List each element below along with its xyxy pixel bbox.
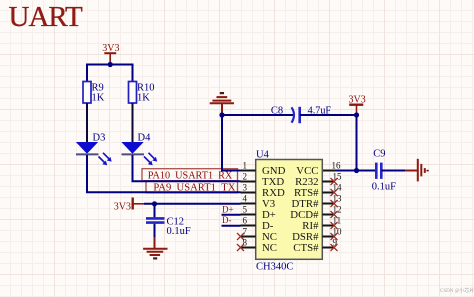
pin 13 DTR# — [292, 193, 343, 210]
svg-text:4: 4 — [243, 193, 248, 203]
wire D3 to pin3 (PA9) — [87, 155, 241, 192]
chip U4 CH340C body — [256, 150, 323, 273]
junction ground/pin1 — [219, 112, 224, 117]
svg-text:NC: NC — [262, 242, 277, 254]
power port 3V3 (right) — [349, 94, 366, 115]
wire D4 to pin2 (PA10) — [133, 155, 241, 181]
wire C9 to ground — [381, 170, 406, 172]
wire pin16 to C9 — [322, 170, 375, 172]
svg-text:2: 2 — [243, 171, 248, 181]
no-connect X pin 15 — [331, 178, 338, 185]
wire D+ to pin5 — [222, 214, 241, 216]
wire 3V3 to pin4 (V3) — [144, 203, 241, 205]
power port 3V3 (near C12) — [114, 198, 144, 213]
junction 3V3/C12 — [152, 201, 157, 206]
svg-text:CH340C: CH340C — [256, 261, 293, 272]
svg-text:CTS#: CTS# — [293, 242, 319, 254]
svg-text:14: 14 — [333, 182, 343, 192]
wire C12 to ground — [154, 224, 156, 238]
pin 6 D- — [241, 215, 274, 232]
net label D+ — [222, 204, 234, 214]
svg-text:CSDN @小芯片师: CSDN @小芯片师 — [440, 287, 474, 294]
net label D- — [222, 215, 232, 225]
svg-text:1K: 1K — [92, 93, 105, 104]
svg-text:3: 3 — [243, 182, 248, 192]
no-connect X pin 13 — [331, 200, 338, 207]
power port 3V3 (top left) — [102, 43, 119, 65]
junction 3V3/R9/R10 — [108, 62, 113, 67]
svg-text:7: 7 — [243, 226, 248, 236]
ground (top, above pin1 net) — [210, 93, 234, 115]
svg-text:D3: D3 — [93, 133, 106, 144]
LED D3 — [76, 133, 112, 166]
svg-text:D-: D- — [222, 215, 232, 225]
svg-text:1K: 1K — [137, 93, 150, 104]
capacitor C9 — [372, 149, 396, 193]
svg-text:11: 11 — [333, 215, 342, 225]
pin 12 DCD# — [290, 204, 341, 221]
pin 3 RXD — [241, 182, 285, 199]
pin 9 CTS# — [293, 237, 337, 254]
svg-text:U4: U4 — [256, 150, 270, 161]
svg-text:PA10 USART1 RX: PA10 USART1 RX — [148, 171, 233, 182]
net label PA9 USART1 TX — [146, 181, 238, 194]
svg-text:8: 8 — [243, 237, 248, 247]
wire R10 to D4 — [132, 103, 134, 143]
no-connect X pin 12 — [331, 211, 338, 218]
svg-text:C9: C9 — [373, 149, 385, 160]
pin 10 DSR# — [292, 226, 342, 243]
title UART — [9, 1, 83, 33]
watermark — [440, 287, 474, 294]
wire ground rail down to pin1 — [222, 115, 241, 171]
wire 3V3 down to pin16 — [356, 115, 358, 171]
svg-text:16: 16 — [332, 160, 342, 170]
svg-text:1: 1 — [243, 160, 248, 170]
svg-text:D+: D+ — [222, 204, 234, 214]
svg-text:15: 15 — [333, 171, 343, 181]
svg-text:C8: C8 — [271, 105, 283, 116]
pin 14 RTS# — [294, 182, 342, 199]
svg-text:5: 5 — [243, 204, 248, 214]
pin 15 R232 — [295, 171, 342, 188]
svg-text:0.1uF: 0.1uF — [372, 181, 396, 192]
wire 3V3 rail to resistors — [87, 65, 133, 82]
no-connect X pin 14 — [331, 189, 338, 196]
ground (right of C9, rotated) — [405, 159, 428, 182]
wire R9 to D3 — [86, 103, 88, 143]
LED D4 — [122, 133, 158, 166]
wire junction to C12 — [154, 204, 156, 218]
pin 7 NC — [241, 226, 278, 243]
svg-text:UART: UART — [9, 1, 83, 33]
no-connect X pin 8 — [237, 244, 244, 251]
pin 11 RI# — [302, 215, 341, 232]
pin 1 GND — [241, 160, 286, 177]
svg-text:D4: D4 — [138, 133, 152, 144]
junction pin16/C9 — [354, 168, 359, 173]
wire D- to pin6 — [222, 225, 241, 227]
no-connect X pin 7 — [237, 233, 244, 240]
no-connect X pin 10 — [331, 233, 338, 240]
resistor R9 — [83, 82, 105, 104]
pin 5 D+ — [241, 204, 276, 221]
svg-text:6: 6 — [243, 215, 248, 225]
pin 4 V3 — [241, 193, 276, 210]
svg-text:12: 12 — [333, 204, 342, 214]
svg-text:13: 13 — [333, 193, 343, 203]
no-connect X pin 11 — [331, 222, 338, 229]
capacitor C8 (polarized) — [271, 105, 332, 123]
pin 8 NC — [241, 237, 278, 254]
svg-text:3V3: 3V3 — [114, 201, 131, 212]
ground below C12 — [143, 237, 167, 258]
wire GND rail to C8 — [222, 114, 293, 116]
capacitor C12 — [146, 217, 191, 237]
pin 2 TXD — [241, 171, 285, 188]
wire C8 to 3V3 junction — [300, 114, 357, 116]
net label PA10 USART1 RX — [142, 169, 238, 182]
svg-text:10: 10 — [333, 226, 343, 236]
pin 16 VCC — [296, 160, 341, 177]
resistor R10 — [129, 82, 155, 104]
no-connect X pin 9 — [331, 244, 338, 251]
svg-text:0.1uF: 0.1uF — [167, 226, 191, 237]
junction 3V3 right — [354, 112, 359, 117]
